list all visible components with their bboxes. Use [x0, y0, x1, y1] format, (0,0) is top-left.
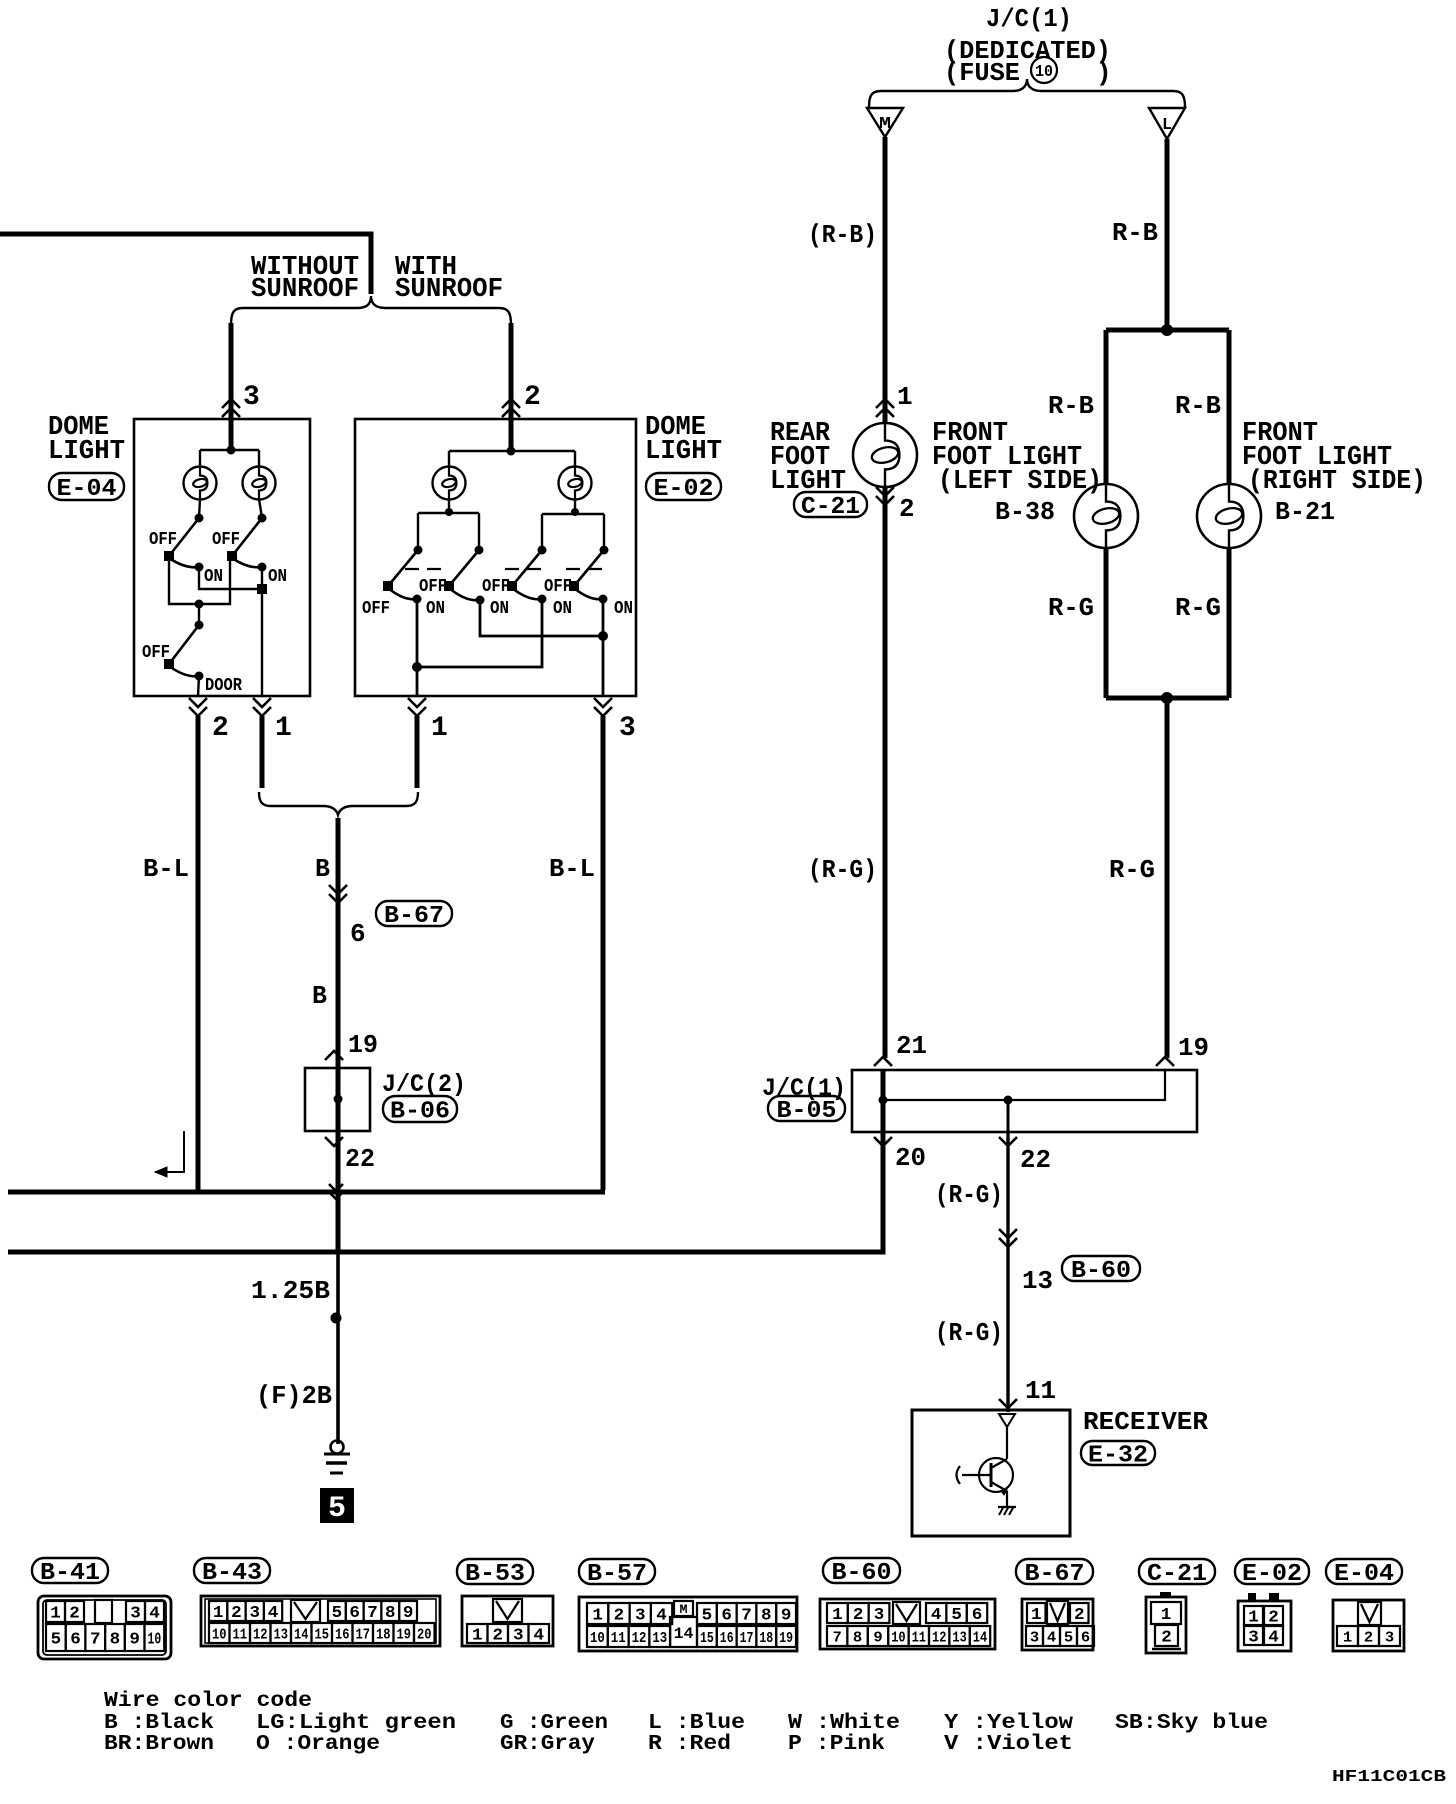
- inner bus J/C1: [883, 1070, 1165, 1100]
- svg-text:B-67: B-67: [1025, 1561, 1085, 1588]
- svg-text:Y :Yellow: Y :Yellow: [944, 1712, 1073, 1735]
- svg-text:10: 10: [148, 1631, 162, 1650]
- svg-text:5: 5: [702, 1607, 713, 1626]
- svg-text:7: 7: [741, 1607, 752, 1626]
- svg-text:V :Violet: V :Violet: [944, 1733, 1073, 1756]
- connector B-43: [201, 1596, 440, 1646]
- svg-text:5: 5: [51, 1631, 62, 1650]
- svg-text:(R-G): (R-G): [808, 855, 877, 885]
- svg-text:Wire color code: Wire color code: [104, 1690, 312, 1713]
- svg-text:B-L: B-L: [549, 854, 595, 884]
- svg-text:1: 1: [832, 1606, 843, 1625]
- connector B-53: [462, 1596, 553, 1646]
- svg-text:P :Pink: P :Pink: [788, 1733, 885, 1756]
- svg-text:14: 14: [294, 1626, 309, 1643]
- svg-text:1.25B: 1.25B: [251, 1276, 330, 1306]
- svg-text:6: 6: [1081, 1629, 1090, 1646]
- switch 2 E-02: [475, 546, 484, 555]
- wire B down from brace: [336, 818, 341, 1068]
- svg-text:C-21: C-21: [1147, 1561, 1207, 1588]
- svg-text:HF11C01CB: HF11C01CB: [1332, 1768, 1446, 1787]
- svg-text:B-05: B-05: [777, 1098, 837, 1125]
- svg-text:5: 5: [951, 1606, 962, 1625]
- linkage dashes: [405, 568, 448, 570]
- svg-text:10: 10: [590, 1630, 605, 1647]
- svg-text:R-B: R-B: [1048, 391, 1094, 421]
- svg-text:4: 4: [931, 1606, 942, 1625]
- lamp: front foot light right B-21: [1197, 484, 1261, 548]
- svg-text:J/C(1): J/C(1): [986, 4, 1072, 34]
- svg-text:1: 1: [897, 382, 913, 412]
- svg-text:1: 1: [1161, 1606, 1172, 1625]
- wire L R-B down: [1165, 139, 1170, 330]
- svg-text:R-B: R-B: [1175, 391, 1221, 421]
- svg-text:E-02: E-02: [654, 476, 714, 503]
- svg-text:13: 13: [952, 1629, 966, 1646]
- svg-text:1: 1: [275, 713, 292, 744]
- svg-text:7: 7: [833, 1629, 842, 1646]
- svg-text:OFF: OFF: [419, 577, 447, 597]
- svg-text:B-21: B-21: [1275, 497, 1335, 527]
- node: pin1 joint: [412, 662, 422, 672]
- connector B-67: [1022, 1599, 1093, 1650]
- svg-text:17: 17: [356, 1626, 371, 1643]
- svg-text:B-60: B-60: [1071, 1258, 1131, 1285]
- svg-text:12: 12: [632, 1630, 647, 1647]
- node: pin3 joint: [598, 631, 608, 641]
- svg-text:18: 18: [376, 1626, 391, 1643]
- svg-text:19: 19: [779, 1630, 793, 1647]
- pin arrow 2 rear foot light: [876, 487, 894, 505]
- svg-text:20: 20: [417, 1626, 432, 1643]
- svg-text:10: 10: [1035, 63, 1053, 82]
- svg-text:ON: ON: [426, 599, 445, 619]
- svg-text:R-B: R-B: [1112, 218, 1158, 248]
- svg-text:M: M: [679, 1602, 687, 1617]
- connector B-41 label: [32, 1558, 108, 1583]
- svg-text:19: 19: [397, 1626, 412, 1643]
- svg-text:4: 4: [656, 1607, 667, 1626]
- svg-text:L :Blue: L :Blue: [648, 1712, 745, 1735]
- svg-text:SUNROOF: SUNROOF: [395, 275, 503, 305]
- svg-text:14: 14: [973, 1629, 987, 1646]
- connector B-60 label: [823, 1558, 900, 1583]
- svg-text:11: 11: [1025, 1376, 1056, 1406]
- wire (R-G) to receiver: [1006, 1132, 1009, 1412]
- node: top junction E-02: [507, 447, 516, 456]
- dome light switch box E-02: [355, 419, 636, 696]
- svg-text:3: 3: [635, 1607, 646, 1626]
- svg-text:8: 8: [385, 1604, 396, 1623]
- svg-text:3: 3: [1385, 1629, 1394, 1646]
- svg-text:19: 19: [348, 1030, 378, 1060]
- svg-text:6: 6: [721, 1607, 732, 1626]
- svg-text:3: 3: [1248, 1629, 1259, 1648]
- node: ground junction: [331, 1313, 342, 1324]
- svg-text:E-04: E-04: [1334, 1561, 1394, 1588]
- lamp: E-04 left bulb: [184, 467, 217, 500]
- pin arrow 11 receiver: [999, 1399, 1017, 1408]
- wire: E-02 pin1 stub: [415, 716, 420, 788]
- svg-text:11: 11: [611, 1630, 626, 1647]
- wire: thick bus line lower: [8, 1132, 883, 1252]
- svg-text:2: 2: [1161, 1629, 1172, 1648]
- svg-text:7: 7: [367, 1604, 378, 1623]
- node: top junction E-04: [227, 446, 236, 455]
- svg-text:2: 2: [899, 494, 915, 524]
- svg-text:11: 11: [233, 1626, 248, 1643]
- wire: thick feed line from left edge: [0, 234, 371, 294]
- svg-text:3: 3: [249, 1604, 260, 1623]
- svg-text:2: 2: [1364, 1629, 1373, 1646]
- lamp: front foot light left B-38: [1074, 484, 1138, 548]
- wire: sw2 ON route: [480, 600, 603, 636]
- svg-text:(FUSE: (FUSE: [944, 58, 1020, 88]
- svg-text:B-53: B-53: [465, 1561, 525, 1588]
- svg-text:3: 3: [513, 1627, 524, 1646]
- svg-text:LG:Light green: LG:Light green: [256, 1712, 456, 1735]
- svg-text:14: 14: [674, 1625, 694, 1643]
- svg-text:4: 4: [533, 1627, 544, 1646]
- wire B-L from E-02 pin3: [601, 716, 606, 1190]
- svg-text:ON: ON: [490, 599, 509, 619]
- svg-text:1: 1: [592, 1607, 603, 1626]
- terminal triangle L: [1149, 108, 1185, 139]
- svg-text:J/C(2): J/C(2): [382, 1070, 466, 1099]
- svg-text:E-04: E-04: [57, 476, 117, 503]
- lamp: E-04 right bulb: [243, 467, 276, 500]
- svg-text:9: 9: [781, 1607, 792, 1626]
- svg-text:2: 2: [1074, 1606, 1085, 1625]
- svg-text:13: 13: [652, 1630, 667, 1647]
- wire B-L from E-04 pin2: [196, 716, 201, 1190]
- wire: ground run: [336, 1131, 341, 1252]
- svg-text:ON: ON: [268, 567, 287, 587]
- connector B-57 label: [579, 1559, 655, 1584]
- wire: pin 3 feed into E-04: [229, 323, 234, 449]
- connector label B-05: [768, 1096, 845, 1121]
- svg-text:8: 8: [761, 1607, 772, 1626]
- wire: right bulb bracket: [571, 508, 579, 516]
- wire: bulb to switch A pivot: [199, 499, 200, 518]
- svg-text:ON: ON: [614, 599, 633, 619]
- svg-text:SUNROOF: SUNROOF: [251, 275, 359, 305]
- connector B-57: [579, 1597, 797, 1651]
- svg-text:1: 1: [431, 713, 448, 744]
- lamp: E-02 left bulb: [433, 467, 466, 500]
- wire M (R-B) down: [883, 137, 888, 424]
- svg-text:M: M: [879, 115, 891, 134]
- svg-text:6: 6: [70, 1631, 81, 1650]
- connector B-60: [820, 1599, 995, 1649]
- svg-text:(F)2B: (F)2B: [256, 1381, 332, 1411]
- svg-text:13: 13: [274, 1626, 289, 1643]
- wire: E-04 pin1 stub: [260, 716, 265, 788]
- node: bus bottom junction: [1161, 692, 1173, 704]
- svg-text:22: 22: [345, 1144, 375, 1174]
- svg-text:3: 3: [1030, 1629, 1039, 1646]
- bus loop front foot lights: [1106, 328, 1229, 333]
- svg-text:OFF: OFF: [362, 599, 390, 619]
- svg-text:LIGHT: LIGHT: [48, 437, 125, 467]
- svg-text:B: B: [315, 854, 330, 884]
- lamp: rear foot light: [853, 423, 917, 487]
- svg-text:(R-B): (R-B): [808, 220, 877, 250]
- wire: bulb B to switch B pivot: [259, 499, 262, 518]
- wire (R-G) down to J/C1: [883, 487, 888, 1058]
- svg-text:7: 7: [90, 1631, 101, 1650]
- svg-text:17: 17: [740, 1630, 754, 1647]
- svg-text:B-67: B-67: [384, 903, 444, 930]
- connector label E-04: [49, 473, 124, 500]
- pin arrow 19 (J/C1): [1156, 1057, 1174, 1066]
- svg-text:21: 21: [896, 1031, 927, 1061]
- dome light switch box E-04: [134, 419, 310, 696]
- svg-text:R :Red: R :Red: [648, 1733, 731, 1756]
- continuation arrow (left): [155, 1131, 184, 1172]
- switch 4 E-02: [600, 546, 609, 555]
- svg-text:O :Orange: O :Orange: [256, 1733, 380, 1756]
- svg-text:R-G: R-G: [1175, 593, 1221, 623]
- svg-text:B-60: B-60: [832, 1560, 892, 1587]
- connector label E-02: [646, 473, 721, 500]
- svg-text:19: 19: [1178, 1033, 1209, 1063]
- connector C-21 label: [1139, 1559, 1215, 1584]
- svg-text:OFF: OFF: [544, 577, 572, 597]
- pin arrow 1 rear foot light: [876, 399, 894, 417]
- svg-text:9: 9: [403, 1604, 414, 1623]
- wire: thick bus line upper: [8, 1190, 605, 1195]
- switch C (door) OFF/DOOR: [198, 604, 200, 625]
- svg-text:16: 16: [335, 1626, 350, 1643]
- pin arrow 19 (J/C2): [325, 1051, 343, 1060]
- svg-text:6: 6: [350, 919, 366, 949]
- svg-text:(LEFT SIDE): (LEFT SIDE): [938, 467, 1102, 497]
- svg-text:G :Green: G :Green: [500, 1712, 608, 1735]
- svg-text:20: 20: [895, 1143, 926, 1173]
- chassis ground: [999, 1506, 1014, 1515]
- svg-text:ON: ON: [204, 567, 223, 587]
- svg-text:B: B: [312, 981, 327, 1011]
- svg-text:1: 1: [213, 1604, 224, 1623]
- pin socket triangle: [999, 1414, 1015, 1427]
- svg-text:15: 15: [315, 1626, 330, 1643]
- svg-text:3: 3: [874, 1606, 885, 1625]
- svg-text:E-32: E-32: [1088, 1443, 1148, 1470]
- pin arrow 22 (J/C1): [999, 1137, 1017, 1146]
- svg-text:3: 3: [243, 382, 260, 413]
- svg-text:12: 12: [932, 1629, 946, 1646]
- switch 3 E-02: [538, 546, 547, 555]
- svg-text:9: 9: [873, 1629, 882, 1646]
- svg-text:22: 22: [1020, 1145, 1051, 1175]
- svg-text:4: 4: [1268, 1629, 1279, 1648]
- connector C-21: [1146, 1597, 1186, 1653]
- svg-text:1: 1: [1248, 1609, 1259, 1628]
- svg-text:SB:Sky blue: SB:Sky blue: [1115, 1712, 1268, 1735]
- svg-text:6: 6: [349, 1604, 360, 1623]
- svg-text:OFF: OFF: [149, 530, 177, 550]
- wire R-G bus to J/C1: [1165, 698, 1170, 1058]
- connector B-67 label: [1016, 1559, 1093, 1584]
- svg-text:10: 10: [891, 1629, 905, 1646]
- connector B-53 label: [457, 1559, 533, 1584]
- wire: to pin 1: [261, 567, 263, 696]
- svg-text:6: 6: [972, 1606, 983, 1625]
- node: bus top junction: [1161, 324, 1173, 336]
- svg-text:OFF: OFF: [212, 530, 240, 550]
- svg-text:4: 4: [268, 1604, 279, 1623]
- svg-text:GR:Gray: GR:Gray: [500, 1733, 595, 1756]
- svg-text:5: 5: [328, 1492, 346, 1526]
- switch A (left bulb) OFF/ON: [195, 514, 204, 523]
- svg-text:2: 2: [1268, 1609, 1279, 1628]
- pin arrow 1 (E-02 out): [408, 698, 426, 716]
- svg-text:E-02: E-02: [1242, 1561, 1302, 1588]
- pin arrow 1 (E-04 out): [253, 698, 271, 716]
- svg-text:16: 16: [720, 1630, 734, 1647]
- svg-text:1: 1: [50, 1605, 61, 1624]
- svg-text:(R-G): (R-G): [935, 1318, 1003, 1348]
- svg-text:B-43: B-43: [202, 1560, 262, 1587]
- node: switch C feed: [195, 600, 204, 609]
- svg-text:1: 1: [1343, 1629, 1352, 1646]
- brace: sunroof option split: [231, 296, 511, 325]
- transistor (photo) inside receiver: [1006, 1427, 1008, 1459]
- svg-text:B-41: B-41: [40, 1560, 100, 1587]
- svg-text:C-21: C-21: [801, 494, 860, 521]
- svg-text:R-G: R-G: [1048, 593, 1094, 623]
- svg-text:B-38: B-38: [995, 497, 1055, 527]
- svg-text:10: 10: [212, 1626, 227, 1643]
- pin arrow 3 (E-02 out): [594, 698, 612, 716]
- wire: sw1 ON to pin1: [416, 599, 419, 696]
- svg-text:18: 18: [759, 1630, 773, 1647]
- svg-text:(R-G): (R-G): [935, 1180, 1003, 1210]
- svg-text:): ): [1096, 58, 1112, 88]
- pin arrow 3: [222, 399, 240, 417]
- switch B (right bulb) OFF/ON: [258, 514, 267, 523]
- pin arrow 22 (J/C2): [325, 1137, 343, 1146]
- svg-text:8: 8: [853, 1629, 862, 1646]
- svg-text:R-G: R-G: [1109, 855, 1155, 885]
- pin arrow 2: [502, 399, 520, 417]
- svg-text:L: L: [1162, 116, 1172, 135]
- svg-text:5: 5: [1064, 1629, 1073, 1646]
- svg-text:(RIGHT SIDE): (RIGHT SIDE): [1248, 467, 1426, 497]
- switch 1 E-02: [414, 546, 423, 555]
- svg-text:DOOR: DOOR: [205, 676, 242, 696]
- svg-text:BR:Brown: BR:Brown: [104, 1733, 214, 1756]
- svg-text:1: 1: [472, 1627, 483, 1646]
- svg-text:2: 2: [212, 713, 229, 744]
- ground ref box 5: [320, 1488, 354, 1523]
- svg-text:W :White: W :White: [788, 1712, 900, 1735]
- connector B-43 label: [194, 1558, 270, 1583]
- svg-text:8: 8: [110, 1631, 121, 1650]
- svg-text:B-06: B-06: [390, 1099, 450, 1126]
- svg-text:3: 3: [130, 1605, 141, 1624]
- svg-text:12: 12: [253, 1626, 268, 1643]
- connector E-04 label: [1326, 1559, 1402, 1584]
- connector E-02: [1238, 1601, 1291, 1651]
- terminal triangle M: [867, 108, 903, 137]
- junction block J/C(1) B-05: [852, 1070, 1197, 1132]
- svg-text:1: 1: [1031, 1606, 1042, 1625]
- svg-text:2: 2: [69, 1605, 80, 1624]
- wire: pin 2 feed into E-02: [509, 323, 514, 450]
- wire: switch A ON to joint: [199, 567, 262, 589]
- svg-text:4: 4: [1047, 1629, 1056, 1646]
- brace: join pin1 wires: [259, 792, 418, 815]
- connector pass B-67: [329, 885, 347, 903]
- svg-text:B-L: B-L: [143, 854, 189, 884]
- svg-text:9: 9: [129, 1631, 140, 1650]
- receiver box E-32: [912, 1410, 1070, 1536]
- svg-text:OFF: OFF: [142, 643, 170, 663]
- wire: OFF bus U-link: [169, 556, 230, 604]
- pin arrow 2 (E-04 out): [189, 698, 207, 716]
- wire: sw4 ON to pin3: [602, 599, 605, 696]
- pin arrow 21: [874, 1057, 892, 1066]
- svg-text:LIGHT: LIGHT: [645, 437, 722, 467]
- svg-text:2: 2: [492, 1627, 503, 1646]
- connector B-41: [38, 1596, 171, 1659]
- wire: DOOR to pin 2: [198, 676, 199, 696]
- svg-text:2: 2: [231, 1604, 242, 1623]
- svg-text:13: 13: [1022, 1266, 1053, 1296]
- svg-text:RECEIVER: RECEIVER: [1083, 1407, 1208, 1437]
- ground symbol: [331, 1441, 344, 1454]
- wire: sw3 ON route: [417, 599, 542, 667]
- svg-text:OFF: OFF: [482, 577, 510, 597]
- junction block J/C(2): [305, 1068, 370, 1131]
- svg-text:11: 11: [912, 1629, 926, 1646]
- svg-text:B :Black: B :Black: [104, 1712, 214, 1735]
- svg-text:2: 2: [853, 1606, 864, 1625]
- svg-text:2: 2: [614, 1607, 625, 1626]
- svg-text:B-57: B-57: [587, 1561, 647, 1588]
- connector label E-32: [1081, 1441, 1155, 1465]
- connector pass B-60: [999, 1229, 1017, 1247]
- node: joint on pin1 line: [257, 584, 267, 594]
- wire: left bulb bracket: [445, 508, 453, 516]
- connector E-02 label: [1235, 1559, 1309, 1584]
- pin arrow 20: [874, 1137, 892, 1146]
- svg-text:15: 15: [700, 1630, 714, 1647]
- svg-text:5: 5: [332, 1604, 343, 1623]
- svg-text:4: 4: [149, 1605, 160, 1624]
- connector E-04: [1333, 1600, 1404, 1651]
- brace: J/C(1) feed: [869, 79, 1185, 107]
- svg-text:3: 3: [619, 713, 636, 744]
- lamp: E-02 right bulb: [559, 467, 592, 500]
- connector label C-21: [794, 492, 867, 517]
- svg-text:ON: ON: [553, 599, 572, 619]
- wire to chassis ground: [1006, 1491, 1008, 1507]
- svg-text:2: 2: [524, 382, 541, 413]
